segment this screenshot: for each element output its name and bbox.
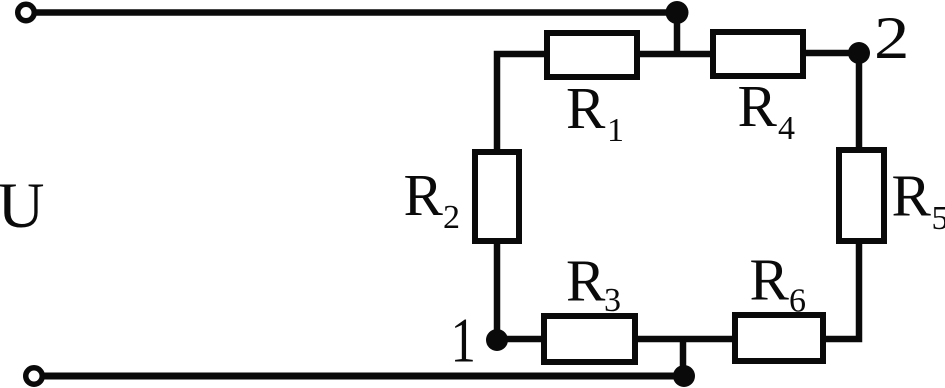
wire node 2 down to R5 [856,53,863,150]
junction node top [666,1,689,24]
wire R3 to R6 [638,336,732,343]
svg-text:R: R [566,248,606,314]
wire between R1 and R4 [640,51,710,58]
resistor R4 [713,32,803,76]
svg-text:1: 1 [607,112,624,149]
resistor R6 [735,315,823,361]
svg-text:2: 2 [443,199,460,236]
svg-text:2: 2 [874,6,909,72]
svg-text:1: 1 [451,306,476,376]
terminal bottom-left [26,368,43,385]
wire R2 down to node 1 [494,241,501,340]
terminal top-left [18,4,35,21]
resistor R1 [547,33,637,77]
svg-text:5: 5 [932,200,945,237]
wire bottom horizontal [42,373,684,380]
svg-text:U: U [0,170,44,242]
wire node 1 to R3 [497,336,544,343]
wire top-left corner to R1 and down to R2 [497,54,544,149]
svg-text:3: 3 [604,282,621,319]
label R1 [566,75,624,149]
svg-text:R: R [738,73,778,139]
resistor R2 [475,152,519,241]
wire top horizontal [34,9,677,16]
wire stub from top node down to branch [674,13,681,58]
svg-text:R: R [566,75,606,141]
svg-text:R: R [892,163,932,229]
label R6 [750,247,807,320]
svg-text:4: 4 [778,110,795,147]
node 1 dot [486,329,508,351]
resistor R3 [544,316,635,362]
wire R4 to node 2 [806,50,859,57]
wire R5 down and corner to R6 [826,241,859,339]
svg-text:R: R [750,247,790,313]
node 2 dot [848,42,870,64]
label R2 [404,162,461,236]
wire stub down to bottom node [680,339,687,376]
label R5 [892,163,945,238]
svg-text:R: R [404,162,444,228]
label R4 [738,73,796,147]
resistor R5 [839,150,884,241]
bottom junction node [673,365,695,387]
label R3 [566,248,621,320]
svg-text:6: 6 [789,283,806,320]
